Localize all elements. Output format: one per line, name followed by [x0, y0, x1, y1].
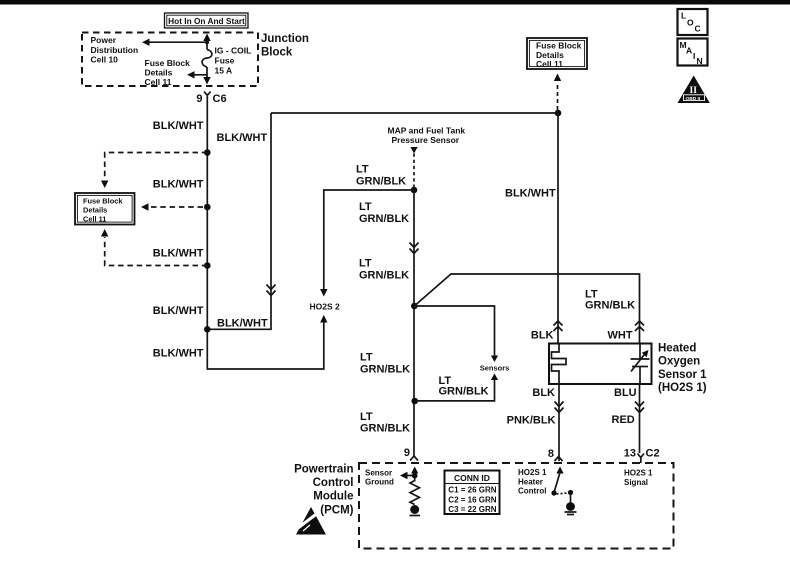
Hot In On And Start box: [165, 13, 249, 28]
svg-text:HO2S 1: HO2S 1: [518, 468, 547, 477]
svg-text:Heater: Heater: [518, 477, 543, 486]
Fuse Block Details Cell 11 box (top): [527, 38, 587, 69]
connector 9 C6: [196, 92, 226, 106]
svg-text:(HO2S 1): (HO2S 1): [658, 382, 707, 394]
LT GRN/BLK labels: [356, 164, 406, 188]
BLK/WHT wire from junction block to node 4: [210, 113, 271, 329]
arrow to Fuse Block Details: [187, 71, 207, 78]
svg-text:I: I: [693, 51, 695, 61]
svg-text:RED: RED: [612, 414, 635, 426]
chevrons up on WHT wire: [635, 321, 644, 331]
svg-text:LT: LT: [359, 258, 372, 270]
svg-text:Control: Control: [313, 477, 354, 489]
top horizontal BLK/WHT wire: [271, 112, 558, 114]
Powertrain Control Module label: [294, 464, 354, 517]
CONN ID table: [445, 471, 500, 515]
svg-text:Powertrain: Powertrain: [294, 464, 353, 476]
svg-text:BLK/WHT: BLK/WHT: [217, 318, 268, 330]
BLK/WHT labels left column: [153, 120, 204, 360]
node dot MAP: [411, 187, 418, 194]
resistor to ground: [410, 481, 419, 505]
PCM dashed box: [359, 463, 674, 549]
svg-text:LT: LT: [360, 411, 373, 423]
svg-text:(PCM): (PCM): [320, 505, 353, 517]
MAP and Fuel Tank Pressure Sensor label: [388, 126, 466, 145]
svg-text:GRN/BLK: GRN/BLK: [439, 386, 489, 398]
dashed link from node 1 to fuse block details box: [101, 153, 207, 189]
svg-text:Cell 11: Cell 11: [83, 215, 106, 224]
svg-text:Fuse Block: Fuse Block: [145, 58, 191, 68]
BLU wire down from sensor: [639, 384, 641, 453]
svg-text:Cell 11: Cell 11: [536, 59, 563, 69]
wire from branch node to HO2S1 signal side: [414, 274, 639, 344]
svg-text:GRN/BLK: GRN/BLK: [360, 364, 410, 376]
svg-text:Cell 10: Cell 10: [91, 55, 119, 65]
Fuse Block Details Cell 11 label (junction block): [145, 58, 191, 87]
svg-text:WHT: WHT: [608, 330, 633, 342]
svg-text:Cell 11: Cell 11: [145, 77, 172, 87]
svg-text:Control: Control: [518, 487, 546, 496]
svg-text:Details: Details: [145, 68, 173, 78]
svg-text:GRN/BLK: GRN/BLK: [585, 300, 635, 312]
ground ball: [410, 505, 421, 516]
BLK wire down from sensor: [558, 384, 560, 461]
switch ground ball: [565, 502, 577, 514]
svg-text:Signal: Signal: [624, 478, 648, 487]
Heated Oxygen Sensor 1 label: [658, 343, 707, 395]
chevrons down: [555, 402, 564, 413]
svg-text:BLK: BLK: [531, 330, 554, 342]
svg-text:GRN/BLK: GRN/BLK: [356, 176, 406, 188]
svg-text:LT: LT: [356, 164, 369, 176]
svg-text:BLK/WHT: BLK/WHT: [153, 179, 204, 191]
node dot 1: [204, 149, 211, 156]
branch wire to sensors arrows: [414, 306, 498, 362]
svg-text:CONN ID: CONN ID: [454, 473, 490, 483]
svg-text:IG - COIL: IG - COIL: [215, 45, 252, 55]
svg-text:9: 9: [404, 447, 410, 459]
svg-text:Fuse: Fuse: [215, 55, 235, 65]
Heated Oxygen Sensor box: [549, 344, 652, 385]
heater control switch: [551, 467, 573, 503]
svg-text:Junction: Junction: [261, 33, 309, 45]
svg-text:C2 = 16 GRN: C2 = 16 GRN: [448, 495, 496, 504]
svg-text:C6: C6: [213, 93, 227, 105]
node dot at fuse block drop: [555, 110, 562, 117]
svg-text:A: A: [686, 46, 692, 56]
svg-text:BLK/WHT: BLK/WHT: [153, 120, 204, 132]
svg-text:LT: LT: [360, 352, 373, 364]
oxygen sensing element: [631, 344, 650, 385]
branch to HO2S 2 (upper): [320, 190, 414, 297]
sensor ground arrow: [400, 472, 415, 479]
svg-text:Sensors: Sensors: [480, 364, 510, 373]
svg-text:L: L: [681, 11, 686, 21]
svg-text:C3 = 22 GRN: C3 = 22 GRN: [448, 505, 496, 514]
svg-text:BLK: BLK: [532, 387, 555, 399]
svg-text:Heated: Heated: [658, 343, 696, 355]
svg-text:GRN/BLK: GRN/BLK: [359, 213, 409, 225]
svg-text:BLU: BLU: [614, 387, 637, 399]
svg-text:BLK/WHT: BLK/WHT: [505, 188, 556, 200]
inline connector chevrons (down): [410, 243, 419, 254]
dashed drop from MAP sensor: [410, 147, 417, 187]
node dot branch: [411, 303, 418, 310]
sensors return wire to node: [418, 374, 498, 401]
HO2S 1 Heater Control label: [518, 468, 547, 496]
dashed arrow from node 2 to box: [141, 203, 203, 210]
main LT GRN/BLK wire down to PCM pin 9: [413, 190, 415, 456]
svg-text:Fuse Block: Fuse Block: [83, 197, 123, 206]
svg-text:Sensor: Sensor: [365, 469, 392, 478]
node dot 4: [204, 326, 211, 333]
dashed link from node 3 to box bottom: [101, 229, 207, 266]
svg-text:HO2S 1: HO2S 1: [624, 469, 653, 478]
svg-text:C: C: [695, 24, 701, 34]
svg-text:Block: Block: [261, 47, 293, 59]
LOC page symbol: [678, 9, 708, 35]
svg-text:Power: Power: [91, 35, 117, 45]
BLK/WHT wire down to sensor: [557, 113, 559, 344]
ESD triangle symbol: [296, 507, 326, 535]
svg-text:N: N: [697, 56, 703, 66]
svg-text:Pressure Sensor: Pressure Sensor: [392, 135, 460, 145]
heater element: [552, 344, 567, 385]
node dot lower branch: [411, 398, 418, 405]
svg-text:Details: Details: [83, 206, 107, 215]
svg-text:LT: LT: [359, 201, 372, 213]
svg-text:BLK/WHT: BLK/WHT: [153, 305, 204, 317]
svg-text:Oxygen: Oxygen: [658, 356, 700, 368]
Junction Block dashed box: [82, 33, 258, 87]
svg-text:Distribution: Distribution: [91, 45, 139, 55]
svg-text:15 A: 15 A: [215, 66, 233, 76]
svg-text:Module: Module: [313, 491, 353, 503]
svg-text:C1 = 26 GRN: C1 = 26 GRN: [448, 486, 496, 495]
pin 8: [548, 448, 563, 461]
Fuse Block Details Cell 11 box (left): [75, 193, 135, 225]
inline connector chevrons (down): [267, 285, 276, 296]
chevrons up on BLK wire: [554, 321, 563, 331]
internal arrow up pin 9: [411, 467, 418, 482]
svg-text:BLK/WHT: BLK/WHT: [153, 248, 204, 260]
arrow to Power Distribution: [142, 39, 207, 46]
dashed arrow up into fuse block box: [554, 74, 561, 111]
IG-COIL Fuse 15 A label: [215, 45, 252, 75]
pin 9: [404, 447, 418, 461]
node dot 2: [204, 204, 211, 211]
svg-text:BLK/WHT: BLK/WHT: [153, 348, 204, 360]
svg-text:Ground: Ground: [365, 477, 394, 486]
Power Distribution Cell 10 label: [91, 35, 139, 65]
HO2S 1 Signal label: [624, 469, 653, 487]
svg-text:8: 8: [548, 448, 554, 460]
svg-text:Sensor 1: Sensor 1: [658, 369, 707, 381]
svg-text:GRN/BLK: GRN/BLK: [360, 423, 410, 435]
svg-text:HO2S 2: HO2S 2: [310, 302, 341, 312]
OBD II triangle symbol: [678, 76, 710, 104]
svg-text:C2: C2: [646, 448, 660, 460]
fuse IG-COIL 15A: [202, 34, 212, 85]
svg-text:GRN/BLK: GRN/BLK: [359, 270, 409, 282]
arrowhead up to HO2S 2 (lower): [320, 315, 327, 323]
MAIN page symbol: [678, 39, 708, 67]
main BLK/WHT wire from C6 down and across to HO2S 2: [207, 98, 323, 369]
svg-text:13: 13: [624, 448, 636, 460]
node dot 3: [204, 262, 211, 269]
svg-text:OBD II: OBD II: [686, 96, 701, 102]
pin 13 C2: [624, 448, 660, 464]
svg-text:PNK/BLK: PNK/BLK: [507, 415, 556, 427]
svg-text:BLK/WHT: BLK/WHT: [217, 132, 268, 144]
Sensor Ground label: [365, 469, 394, 487]
top border bar: [0, 0, 790, 5]
Junction Block label: [261, 33, 309, 59]
svg-text:9: 9: [196, 93, 202, 105]
svg-text:O: O: [687, 18, 694, 28]
svg-text:Hot In On And Start: Hot In On And Start: [168, 16, 245, 26]
